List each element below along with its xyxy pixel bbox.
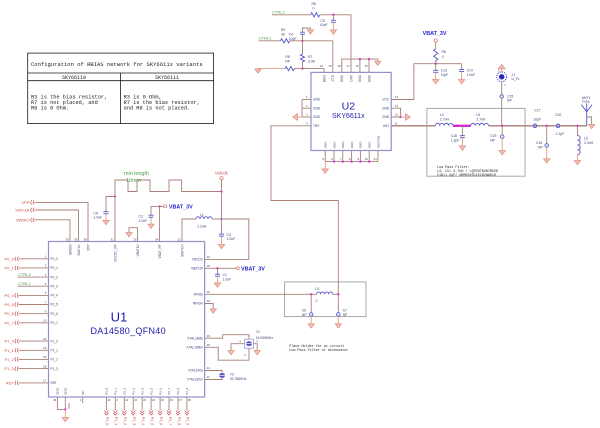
wire P2_4 stub — [141, 397, 143, 410]
junction U2 bottom bus — [333, 160, 335, 162]
wire P2_8 stub — [177, 397, 179, 410]
connector J1 U_FL — [497, 72, 507, 82]
svg-text:17: 17 — [347, 64, 351, 68]
port P2_5 — [149, 411, 153, 416]
svg-text:P0_2: P0_2 — [51, 275, 59, 279]
wire C14 branch — [461, 64, 463, 70]
wire L1 to Vdcdc node — [212, 218, 222, 220]
wire pad to ground — [64, 409, 66, 417]
svg-text:CTX: CTX — [331, 74, 335, 81]
svg-text:R5: R5 — [442, 50, 446, 54]
inductor L1 — [196, 217, 212, 219]
svg-text:CTRL1: CTRL1 — [259, 36, 272, 41]
svg-text:SWDIO: SWDIO — [16, 217, 30, 222]
svg-text:VDCDC_RF: VDCDC_RF — [113, 244, 117, 261]
svg-text:32.768KHz: 32.768KHz — [230, 377, 247, 381]
ground C18 — [459, 146, 465, 150]
wire U2 pin 10 stub — [368, 151, 370, 162]
svg-text:GND: GND — [350, 141, 354, 149]
svg-text:16.000MHz: 16.000MHz — [256, 336, 274, 340]
capacitor C15 — [500, 95, 504, 99]
wire C3 branch — [221, 219, 223, 234]
wire C3 to ground — [221, 236, 223, 245]
wire node A to R7 — [302, 41, 304, 54]
capacitor C16 — [545, 144, 549, 148]
svg-text:36: 36 — [74, 238, 78, 242]
svg-text:22: 22 — [43, 337, 47, 341]
wire P2_0 stub — [105, 397, 107, 410]
svg-text:P0_0: P0_0 — [51, 257, 59, 261]
wire TRX to pi filter — [271, 126, 338, 294]
svg-text:VBAT_RF: VBAT_RF — [158, 244, 162, 258]
ground RFIOm — [210, 309, 216, 313]
svg-text:PIFA: PIFA — [582, 100, 590, 104]
svg-text:GNDTAB: GNDTAB — [376, 136, 380, 148]
svg-text:P1_3: P1_3 — [51, 367, 59, 371]
wire C6 to ground — [310, 315, 312, 323]
svg-text:VBAT_3V: VBAT_3V — [423, 31, 447, 37]
note box low pass filter — [427, 108, 525, 176]
svg-text:2.2uH: 2.2uH — [197, 225, 207, 229]
wire C20 to antenna node — [560, 125, 587, 127]
junction VBAT_RF — [158, 205, 160, 207]
svg-text:10pF: 10pF — [320, 23, 328, 27]
wire SWCLK — [34, 210, 78, 242]
junction U2 bottom bus — [350, 160, 352, 162]
svg-text:CTRL2: CTRL2 — [18, 272, 31, 277]
svg-text:U1: U1 — [111, 309, 128, 324]
svg-text:GND: GND — [56, 387, 60, 395]
port P2_2 — [122, 411, 126, 416]
svg-text:GND: GND — [313, 98, 321, 102]
junction GND12 — [399, 116, 401, 118]
port P2_7 — [167, 411, 171, 416]
wire GND12 stub — [391, 116, 400, 118]
wire RFIOp to L3 — [205, 293, 317, 295]
svg-text:P2_3: P2_3 — [132, 417, 136, 425]
svg-text:ANT: ANT — [383, 124, 389, 128]
svg-text:1.0uF: 1.0uF — [223, 277, 232, 281]
wire node B to BIAS — [303, 69, 325, 73]
wire C1 to ground — [217, 276, 219, 283]
svg-text:P0_7: P0_7 — [51, 321, 59, 325]
ground C13 — [433, 80, 439, 84]
wire P0_6 — [19, 313, 49, 315]
svg-text:P2_6: P2_6 — [159, 417, 163, 425]
svg-text:TRX: TRX — [313, 124, 320, 128]
wire GND15 stub — [368, 59, 370, 72]
wire VBAT_RF stub — [159, 206, 161, 241]
wire U2 pin 9 stub — [359, 151, 361, 162]
wire SWITCH to L1 — [182, 219, 196, 242]
wire CTRL1 — [18, 285, 49, 287]
wire GND12 to ground arrow — [401, 116, 406, 118]
svg-text:P1_3: P1_3 — [4, 366, 14, 371]
capacitor C6 bypass — [104, 211, 109, 213]
svg-text:1.0uF: 1.0uF — [467, 73, 476, 77]
wire R3 to CTX corner — [290, 40, 333, 42]
junction GND pad — [64, 408, 66, 410]
wire RST — [19, 382, 49, 384]
ground C1 — [214, 283, 220, 287]
wire VBAT1V tie — [129, 228, 138, 242]
wire C5 to ground — [332, 22, 334, 30]
svg-text:GND: GND — [382, 115, 390, 119]
svg-text:1.0uF: 1.0uF — [94, 216, 103, 220]
svg-text:P2_9: P2_9 — [186, 417, 190, 425]
svg-text:1.0uF: 1.0uF — [227, 237, 236, 241]
svg-text:P0_5: P0_5 — [51, 303, 59, 307]
ground U2 bottom — [322, 169, 328, 173]
wire XTAL32Km to Y2 — [205, 378, 223, 380]
wire C4 to ground jog — [303, 28, 311, 32]
wire U2 bottom GND bus — [325, 161, 378, 163]
junction antenna node — [576, 125, 578, 127]
ground ANT1 — [589, 124, 595, 128]
svg-text:GND: GND — [358, 74, 362, 82]
svg-text:P1_2: P1_2 — [4, 357, 14, 362]
svg-text:SKY66110: SKY66110 — [62, 75, 86, 81]
wire U2 GND1-3 tie — [302, 99, 311, 101]
svg-text:P0_3: P0_3 — [51, 284, 59, 288]
port P2_8 — [176, 411, 180, 416]
wire GND13 to GND12 — [391, 108, 400, 117]
svg-text:21: 21 — [374, 157, 378, 161]
svg-text:VBAT3V: VBAT3V — [191, 267, 204, 271]
wire R8 to node B — [294, 68, 302, 70]
resistor R5 — [434, 49, 438, 61]
svg-text:SKY66111: SKY66111 — [155, 75, 179, 81]
resistor R7 — [300, 54, 304, 62]
svg-text:NP: NP — [302, 313, 307, 317]
wire C16 branch — [546, 126, 548, 145]
svg-text:R8 is 0 Ohm.: R8 is 0 Ohm. — [31, 106, 69, 112]
wire P0_7 — [19, 322, 49, 324]
svg-text:VBAT1V: VBAT1V — [136, 244, 140, 257]
svg-text:NP: NP — [538, 145, 543, 149]
svg-text:14: 14 — [395, 95, 399, 99]
wire P2_6 stub — [159, 397, 161, 410]
wire L6 branch — [577, 126, 579, 136]
wire C2 branch — [151, 206, 160, 215]
resistor R3 — [281, 39, 290, 43]
capacitor C19 — [500, 135, 504, 139]
svg-text:GND: GND — [341, 141, 345, 149]
wire C1 branch — [217, 268, 219, 274]
svg-text:RST: RST — [51, 381, 57, 385]
ground C19 — [499, 151, 505, 155]
svg-text:P0_6: P0_6 — [4, 311, 14, 316]
svg-text:P0_5: P0_5 — [4, 302, 14, 307]
svg-text:15: 15 — [365, 64, 369, 68]
svg-text:and R8 is not placed.: and R8 is not placed. — [124, 106, 191, 112]
svg-text:VBAT_3V: VBAT_3V — [169, 205, 193, 211]
svg-text:11: 11 — [207, 375, 210, 379]
power VBAT_3V circle (U1) — [164, 205, 167, 208]
svg-text:12: 12 — [395, 113, 399, 117]
wire U2 top GND bus — [342, 59, 378, 72]
wire P2_9 stub — [186, 397, 188, 410]
svg-text:VDCDC: VDCDC — [192, 258, 204, 262]
power Vdcdc pin circle — [220, 177, 223, 180]
svg-text:P2_3: P2_3 — [131, 387, 135, 394]
wire Y1 pin4 to ground — [231, 344, 245, 351]
svg-text:P2_4: P2_4 — [140, 387, 144, 394]
svg-text:31: 31 — [111, 238, 115, 242]
wire GND tie to ground — [298, 116, 303, 118]
ground VBAT1V — [126, 233, 132, 237]
svg-text:NP: NP — [490, 138, 495, 142]
capacitor C6 — [309, 313, 313, 317]
svg-text:Vdcdc: Vdcdc — [215, 170, 229, 176]
ground C2 — [148, 224, 154, 228]
ground C6 — [308, 324, 314, 328]
svg-text:3.3K: 3.3K — [308, 59, 316, 63]
wire C17 to C20 — [537, 125, 557, 127]
svg-text:P2_7: P2_7 — [168, 417, 172, 425]
wire C6 branch — [310, 294, 312, 313]
wire CTRL2 — [18, 276, 49, 278]
inductor L3 — [317, 292, 333, 294]
wire GND39 stub — [57, 397, 65, 409]
power VBAT_3V pin circle — [434, 39, 437, 42]
wire C7 branch — [337, 294, 339, 313]
svg-text:P2_8: P2_8 — [177, 417, 181, 425]
svg-text:PAD: PAD — [67, 403, 71, 408]
svg-text:CRX: CRX — [349, 74, 353, 82]
wire P1_3 — [19, 368, 49, 370]
svg-text:P2_0: P2_0 — [105, 387, 109, 394]
svg-text:P0_1: P0_1 — [4, 265, 14, 270]
wire P2_7 stub — [168, 397, 170, 410]
port P2_0 — [104, 411, 108, 416]
wire C18 branch — [461, 126, 463, 136]
wire C13 branch — [435, 64, 437, 70]
svg-text:0: 0 — [313, 7, 315, 11]
wire CRX vertical — [350, 15, 352, 73]
wire P2_1 stub — [114, 397, 116, 410]
capacitor C1 — [215, 273, 220, 275]
capacitor C3 — [219, 233, 224, 235]
ground C16 — [544, 159, 550, 163]
wire L5 to C17 — [489, 125, 534, 127]
port P2_1 — [113, 411, 117, 416]
wire R8 left to ground — [258, 68, 285, 70]
IC U2 body — [311, 72, 391, 150]
svg-text:GND: GND — [332, 141, 336, 149]
ground U2 top GND bus — [375, 61, 381, 65]
wire L3 right — [333, 293, 339, 295]
wire U2 pin 7 stub — [342, 151, 344, 162]
svg-text:P2_1: P2_1 — [114, 417, 118, 425]
wire P1_0 — [19, 340, 49, 342]
svg-text:GND: GND — [313, 115, 321, 119]
svg-text:1.0uF: 1.0uF — [139, 219, 148, 223]
wire XTAL16Mp to Y1 — [205, 335, 249, 340]
svg-text:12: 12 — [207, 366, 211, 370]
svg-text:P2_7: P2_7 — [167, 387, 171, 394]
svg-text:10: 10 — [365, 157, 369, 161]
svg-text:P2_5: P2_5 — [150, 417, 154, 425]
wire P2_3 stub — [132, 397, 134, 410]
junction C1 — [216, 267, 218, 269]
svg-text:P0_4: P0_4 — [51, 294, 59, 298]
capacitor C4 — [300, 31, 305, 33]
svg-text:P1_2: P1_2 — [51, 358, 59, 362]
wire VCC node to C14 — [436, 63, 462, 65]
svg-text:34: 34 — [155, 238, 159, 242]
wire CTRL1 to R3 — [259, 40, 281, 42]
svg-text:3.3nH: 3.3nH — [584, 141, 594, 145]
svg-text:0: 0 — [442, 55, 444, 59]
svg-text:19: 19 — [328, 64, 332, 68]
svg-text:P0_0: P0_0 — [4, 256, 14, 261]
table column divider — [119, 73, 121, 124]
svg-text:P2_0: P2_0 — [105, 417, 109, 425]
svg-text:38: 38 — [84, 238, 88, 242]
svg-text:R6: R6 — [312, 2, 316, 6]
wire loop to VDCDC pin — [205, 219, 249, 259]
inductor L4 — [435, 123, 453, 126]
svg-text:24: 24 — [43, 346, 47, 350]
svg-text:VPP: VPP — [21, 200, 29, 205]
resistor R6 — [311, 13, 320, 17]
antenna ANT1 PIFA — [581, 104, 592, 126]
svg-text:Y2: Y2 — [230, 372, 234, 376]
wire C4 branch up — [302, 34, 304, 40]
svg-text:10pF: 10pF — [533, 117, 541, 121]
wire GND16 stub — [359, 59, 361, 72]
svg-text:P0_7: P0_7 — [4, 320, 14, 325]
wire R5 to junction — [435, 61, 437, 64]
svg-text:P2_9: P2_9 — [185, 387, 189, 394]
port P2_6 — [158, 411, 162, 416]
wire R6 to CRX corner — [320, 14, 351, 16]
wire min length trace — [115, 180, 222, 197]
svg-text:C20: C20 — [555, 113, 561, 117]
junction L3 left — [310, 293, 312, 295]
svg-text:GND: GND — [340, 74, 344, 82]
junction C16 node — [546, 125, 548, 127]
wire P0_0 — [19, 258, 49, 260]
ground C4 — [307, 30, 313, 34]
svg-text:2.7nH: 2.7nH — [476, 117, 486, 121]
svg-text:U2: U2 — [342, 100, 356, 112]
wire C18 to ground — [461, 138, 463, 146]
svg-text:L3: L3 — [315, 287, 319, 291]
wire C7 to ground — [337, 315, 339, 323]
junction node A — [301, 40, 303, 42]
svg-text:13: 13 — [395, 104, 399, 108]
svg-text:17: 17 — [43, 379, 47, 383]
svg-text:C18=1.2pF/ GRM0335C1E1R2WA01D: C18=1.2pF/ GRM0335C1E1R2WA01D — [437, 173, 496, 178]
junction GND16 — [359, 58, 361, 60]
capacitor C5 — [331, 19, 336, 21]
wire XTAL32Kp to Y2 — [205, 371, 223, 374]
wire L4 to C18 (highlighted) — [453, 125, 471, 127]
wire C14 to ground — [461, 72, 463, 80]
svg-text:P2_1: P2_1 — [114, 387, 118, 394]
wire RFIOm to ground — [205, 304, 214, 310]
svg-text:P0_6: P0_6 — [51, 312, 59, 316]
capacitor C20 (series) — [556, 124, 560, 128]
junction C18-L5 — [467, 125, 469, 127]
svg-text:VBAT_3V: VBAT_3V — [241, 266, 265, 272]
port P2_9 — [185, 411, 189, 416]
wire J1 to ground — [501, 69, 503, 73]
wire Y1 pin2 to ground — [254, 344, 258, 351]
svg-text:20: 20 — [320, 64, 324, 68]
ground U1 pad — [62, 417, 68, 421]
svg-text:28: 28 — [43, 364, 47, 368]
ground J1 shield (up) — [498, 65, 505, 69]
wire C2 to ground — [150, 217, 152, 224]
svg-text:2.7nH: 2.7nH — [440, 117, 450, 121]
wire VPP — [34, 202, 88, 241]
wire J1 to C15 — [501, 82, 503, 95]
svg-text:XTAL16Mm: XTAL16Mm — [186, 346, 203, 350]
junction node B — [301, 67, 303, 69]
crystal Y1 — [245, 339, 254, 348]
junction CTRL2/C5 — [332, 14, 334, 16]
wire bus to ground — [324, 162, 326, 169]
capacitor C17 (series) — [533, 124, 537, 128]
wire C19 to ground — [501, 138, 503, 151]
svg-text:GND: GND — [367, 74, 371, 82]
ground R8 — [255, 69, 261, 73]
junction Vdcdc — [220, 190, 222, 192]
svg-text:min length: min length — [124, 171, 149, 177]
svg-text:RFIOm: RFIOm — [193, 302, 204, 306]
junction L3 right — [337, 293, 339, 295]
svg-text:RST: RST — [6, 380, 15, 385]
wire P2_5 stub — [150, 397, 152, 410]
IC U1 body — [49, 242, 205, 398]
wire P2_2 stub — [123, 397, 125, 410]
junction U2 bottom bus — [368, 160, 370, 162]
wire P1_1 — [19, 349, 49, 351]
wire VBAT_3V to R5 — [435, 42, 437, 49]
svg-text:SWITCH: SWITCH — [180, 244, 184, 257]
power VBAT_3V circle (right) — [236, 267, 239, 270]
wire C5 branch — [332, 15, 334, 20]
wire R7 to node B — [302, 62, 304, 69]
svg-text:GND: GND — [64, 387, 68, 395]
wire SWDIO — [34, 220, 70, 242]
table title row divider — [28, 72, 214, 74]
svg-text:P2_5: P2_5 — [149, 387, 153, 394]
svg-text:L1: L1 — [200, 213, 204, 217]
wire GND PAD stub — [64, 397, 66, 409]
svg-text:P0_4: P0_4 — [4, 293, 14, 298]
svg-text:VPP: VPP — [86, 244, 90, 250]
junction U2 bottom bus — [342, 160, 344, 162]
svg-text:XTAL32Kp: XTAL32Kp — [188, 369, 203, 373]
svg-text:SKY6611x: SKY6611x — [332, 113, 365, 120]
svg-text:SWCLK: SWCLK — [15, 208, 30, 213]
svg-text:29: 29 — [207, 334, 211, 338]
wire Vdcdc node vertical — [221, 192, 223, 220]
ground Y1 right — [254, 351, 260, 355]
svg-text:P2_2: P2_2 — [123, 387, 127, 394]
ground C3 — [218, 245, 224, 249]
capacitor C2 — [149, 214, 154, 216]
svg-text:P2_4: P2_4 — [141, 417, 145, 425]
junction L4-C18 — [456, 125, 458, 127]
inductor L5 — [471, 123, 489, 126]
wire P0_5 — [19, 304, 49, 306]
port P2_3 — [131, 411, 135, 416]
